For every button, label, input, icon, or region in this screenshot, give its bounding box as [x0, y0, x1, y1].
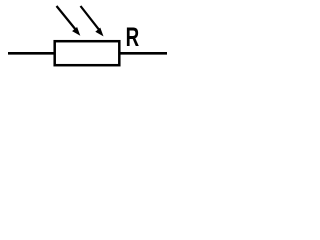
- light arrow 1: [57, 6, 81, 36]
- light arrow 2: [81, 6, 104, 36]
- photoresistor (LDR) schematic: [0, 0, 180, 80]
- resistor R: [55, 41, 120, 65]
- svg-text:R: R: [126, 21, 140, 51]
- wire (right lead): [119, 52, 167, 55]
- wire (left lead): [8, 52, 55, 55]
